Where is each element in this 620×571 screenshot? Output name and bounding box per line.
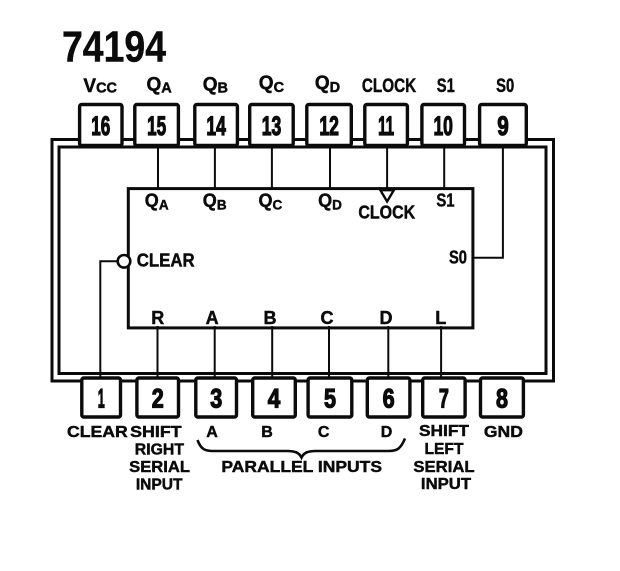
pin 3	[196, 378, 237, 417]
svg-text:8: 8	[496, 384, 508, 414]
label SHIFT LEFT SERIAL INPUT (pin 7)	[413, 423, 474, 493]
svg-text:16: 16	[91, 111, 110, 141]
svg-text:L: L	[435, 308, 446, 328]
wire pin 2 to R	[157, 326, 159, 380]
svg-text:SERIAL: SERIAL	[129, 459, 190, 476]
svg-text:C: C	[321, 308, 334, 328]
svg-text:S1: S1	[437, 76, 455, 97]
wire pin 14 to QB	[214, 142, 216, 190]
svg-text:CLEAR: CLEAR	[67, 424, 128, 441]
svg-text:CLEAR: CLEAR	[137, 250, 195, 270]
svg-text:S1: S1	[436, 191, 454, 211]
pin 8	[481, 378, 524, 417]
svg-text:INPUT: INPUT	[136, 477, 183, 494]
svg-text:SHIFT: SHIFT	[419, 423, 469, 440]
pin 5	[308, 378, 352, 417]
svg-text:74194: 74194	[62, 23, 166, 72]
function box U1	[128, 189, 473, 328]
svg-text:SERIAL: SERIAL	[413, 459, 474, 476]
package outline outer contour	[52, 140, 554, 382]
wire pin 5 to C	[328, 326, 330, 380]
svg-text:S0: S0	[449, 248, 467, 268]
pin 15	[135, 105, 179, 146]
brace parallel inputs	[198, 439, 406, 458]
svg-text:A: A	[206, 424, 218, 441]
pin 4	[253, 378, 296, 417]
wire pin 15 to QA	[157, 142, 159, 190]
wire pin 10 to S1	[443, 142, 445, 190]
svg-text:4: 4	[268, 384, 281, 414]
svg-text:5: 5	[324, 384, 336, 414]
svg-text:12: 12	[319, 111, 339, 141]
svg-text:A: A	[206, 308, 219, 328]
clock edge-trigger arrowhead	[380, 190, 393, 201]
pin 10	[422, 105, 465, 146]
svg-text:1: 1	[98, 384, 105, 414]
svg-text:6: 6	[383, 384, 395, 414]
pin 1	[82, 378, 121, 417]
inverter bubble on CLEAR input	[118, 255, 131, 268]
wire pin 4 to B	[271, 326, 273, 380]
svg-text:C: C	[318, 424, 330, 441]
package outline	[59, 147, 546, 374]
svg-text:S0: S0	[496, 76, 514, 97]
svg-text:LEFT: LEFT	[425, 441, 464, 458]
wire pin 9 to S0	[473, 142, 503, 258]
pin 9	[480, 105, 527, 146]
svg-text:D: D	[381, 424, 393, 441]
svg-text:13: 13	[262, 111, 282, 141]
svg-text:CLOCK: CLOCK	[358, 203, 415, 223]
svg-text:7: 7	[439, 384, 449, 414]
pin 7	[423, 378, 465, 417]
svg-text:10: 10	[433, 111, 453, 141]
svg-text:9: 9	[497, 111, 509, 141]
pin 12	[307, 105, 352, 146]
wire pin 3 to A	[214, 326, 216, 380]
pin 2	[137, 378, 179, 417]
wire pin 6 to D	[387, 326, 389, 380]
pin 14	[195, 105, 238, 146]
svg-text:14: 14	[206, 111, 226, 141]
wire pin 12 to QD	[329, 142, 331, 190]
svg-text:INPUT: INPUT	[421, 476, 471, 493]
svg-text:15: 15	[147, 111, 166, 141]
svg-text:3: 3	[210, 384, 222, 414]
svg-text:2: 2	[152, 384, 164, 414]
pin 11	[365, 105, 408, 146]
svg-text:SHIFT: SHIFT	[130, 424, 182, 441]
svg-text:11: 11	[378, 111, 394, 141]
svg-text:PARALLEL INPUTS: PARALLEL INPUTS	[221, 459, 382, 476]
pin 16	[80, 105, 122, 146]
label SHIFT RIGHT SERIAL INPUT (pin 2)	[129, 424, 190, 494]
pin 6	[367, 378, 410, 417]
wire pin 7 to L	[440, 326, 442, 380]
pin 13	[250, 105, 294, 146]
wire pin 13 to QC	[271, 142, 273, 190]
wire pin 1 to CLEAR	[100, 261, 117, 380]
svg-text:B: B	[261, 424, 273, 441]
svg-text:B: B	[264, 308, 277, 328]
wire pin 11 to CLOCK	[386, 142, 388, 189]
svg-text:GND: GND	[484, 424, 523, 441]
svg-text:R: R	[151, 308, 164, 328]
svg-text:D: D	[380, 308, 393, 328]
svg-text:CLOCK: CLOCK	[362, 76, 416, 97]
svg-text:RIGHT: RIGHT	[135, 442, 184, 459]
